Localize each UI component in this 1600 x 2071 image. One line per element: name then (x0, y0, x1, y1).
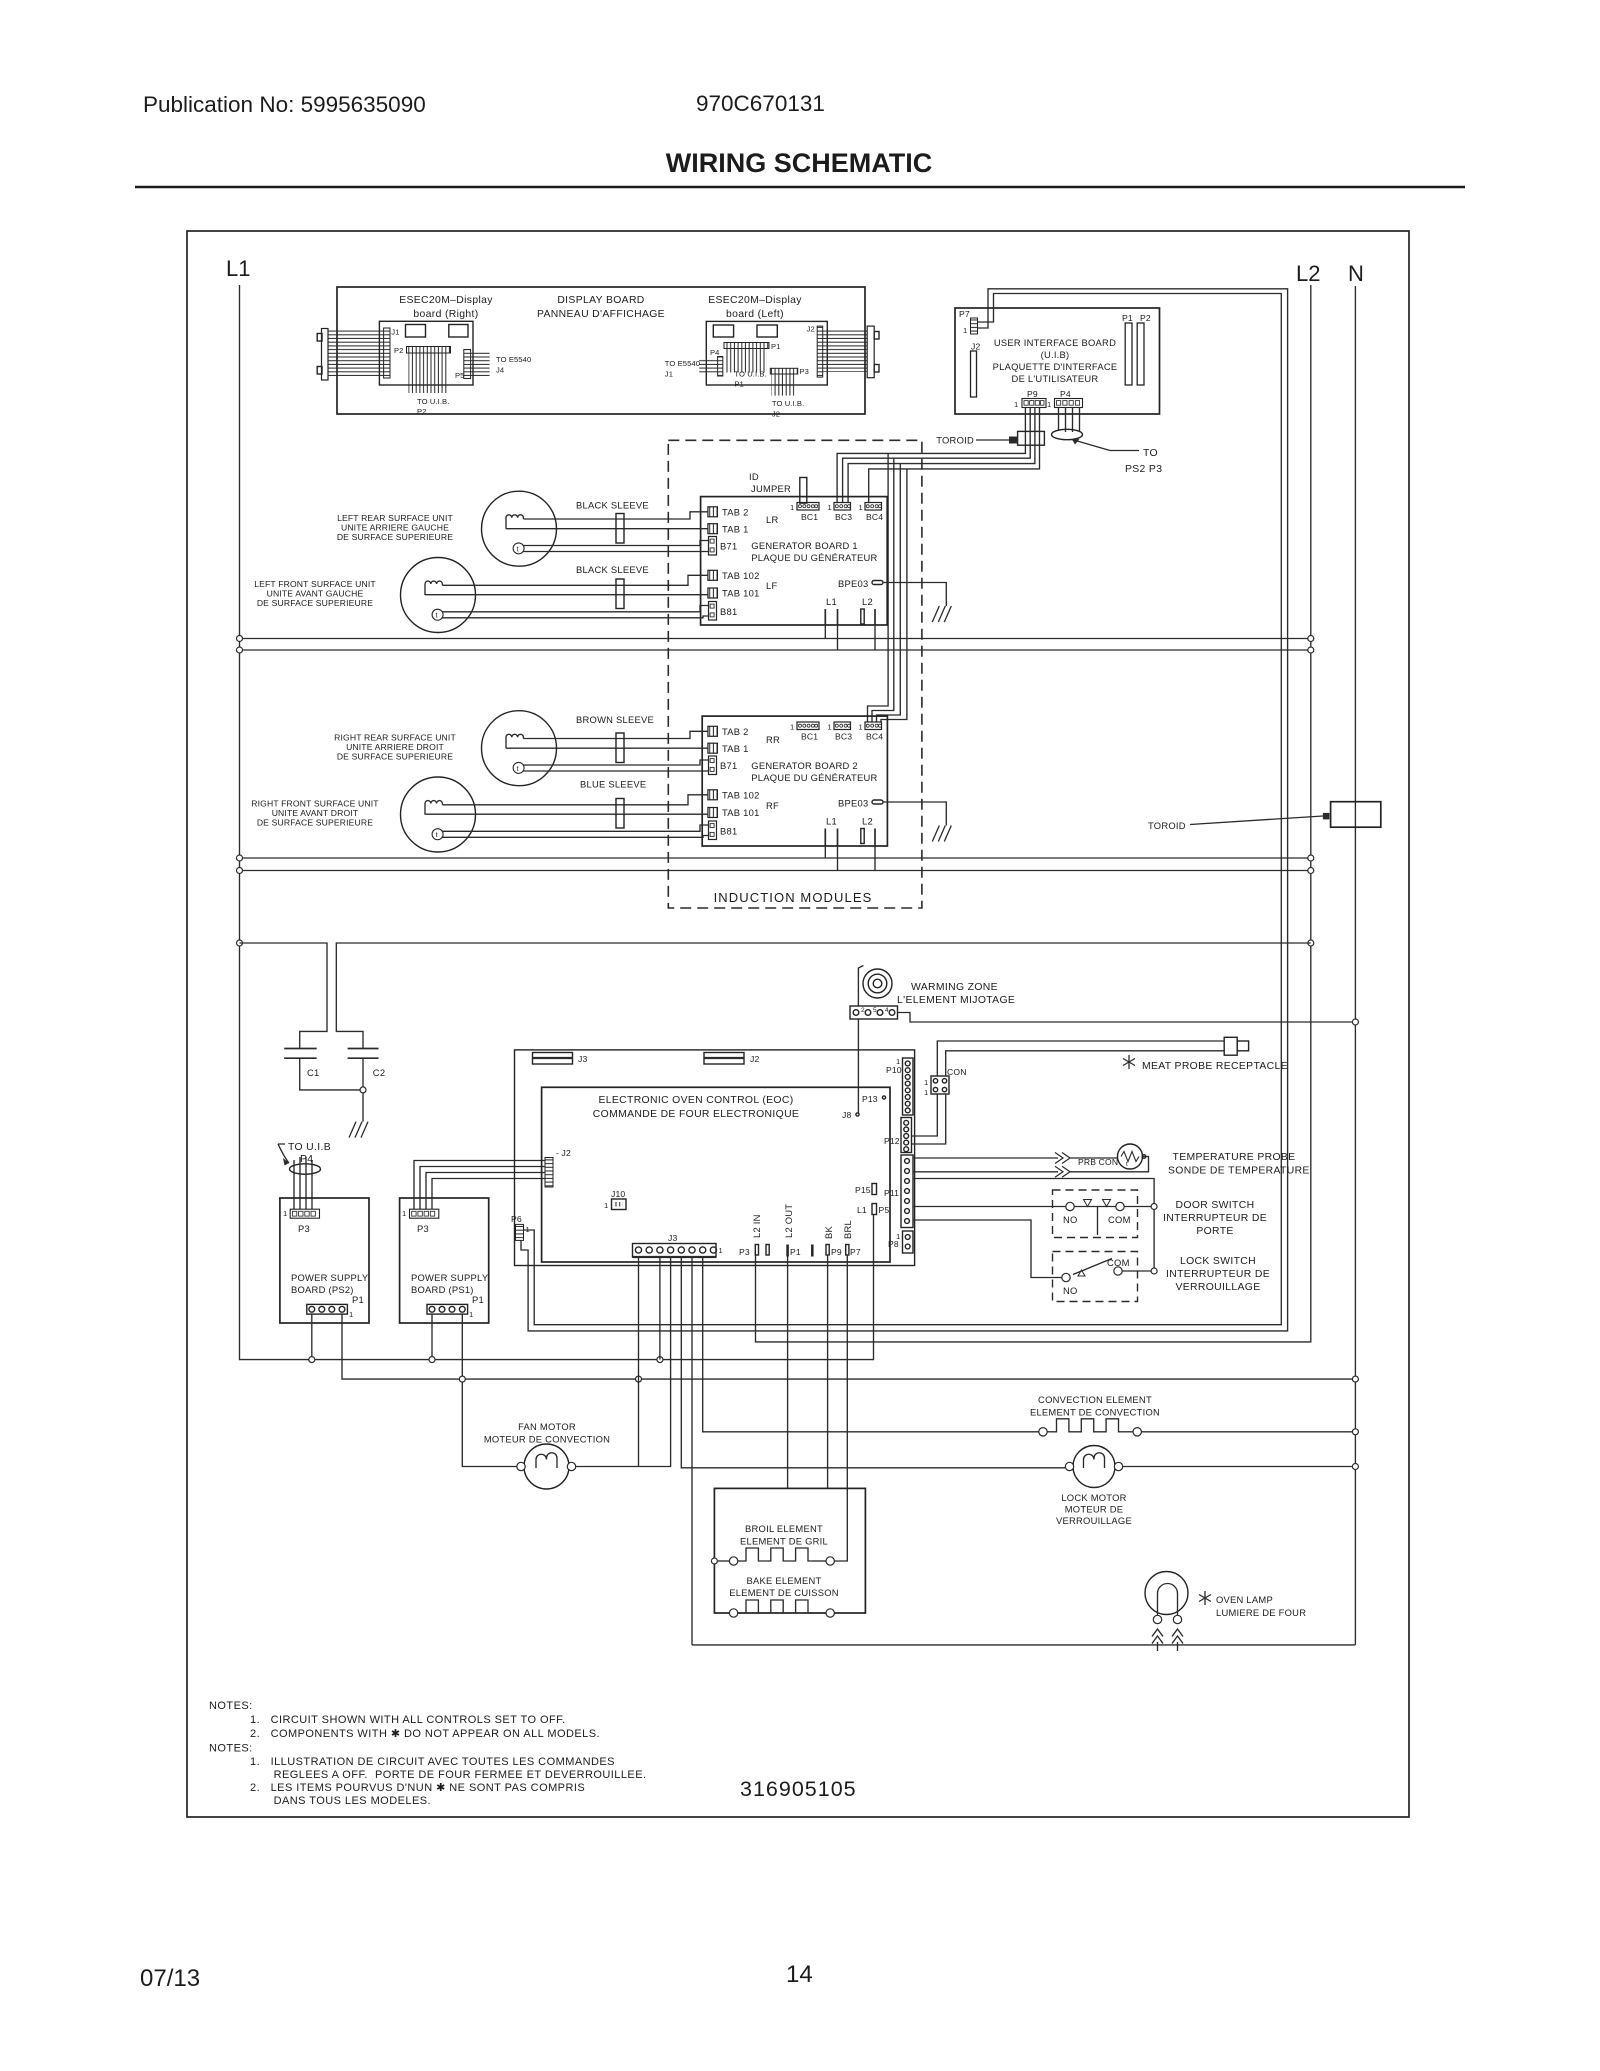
svg-text:L1: L1 (857, 1205, 867, 1215)
svg-text:P1: P1 (790, 1247, 801, 1257)
wires P9 through toroid to BC3/BC4 (837, 408, 1025, 504)
svg-text:B81: B81 (720, 606, 737, 617)
wire PS2 P1 pin4 to bus B (342, 1314, 1355, 1379)
svg-text:DOOR SWITCH: DOOR SWITCH (1176, 1200, 1255, 1211)
svg-text:1: 1 (469, 1310, 473, 1319)
temperature probe resistor (1070, 1157, 1118, 1159)
svg-text:C1: C1 (307, 1067, 319, 1078)
svg-text:B71: B71 (720, 541, 737, 552)
svg-text:5: 5 (873, 1007, 877, 1014)
svg-text:P3: P3 (739, 1247, 750, 1257)
ribbon down from P1 (726, 349, 767, 373)
svg-text:ELECTRONIC OVEN CONTROL (EOC): ELECTRONIC OVEN CONTROL (EOC) (598, 1095, 793, 1106)
svg-text:P1: P1 (1122, 313, 1133, 323)
svg-text:TAB 1: TAB 1 (722, 524, 749, 535)
svg-text:1: 1 (896, 1232, 900, 1241)
chevrons PRB CON (1055, 1153, 1070, 1164)
connector P3 (PS1) (410, 1209, 439, 1218)
wires LF to TAB102/TAB101 (442, 575, 708, 585)
right display PCB (379, 321, 473, 385)
ribbon right from P5 (471, 352, 490, 378)
svg-text:P2: P2 (417, 407, 427, 416)
svg-text:NO: NO (1063, 1285, 1078, 1296)
right front coil (425, 801, 442, 815)
svg-text:P2: P2 (1140, 313, 1151, 323)
svg-text:1: 1 (828, 503, 832, 512)
svg-text:DANS TOUS LES MODELES.: DANS TOUS LES MODELES. (274, 1795, 431, 1807)
svg-text:4: 4 (885, 1007, 889, 1014)
svg-text:P7: P7 (850, 1247, 861, 1257)
junction nodes on bus B (459, 1376, 465, 1382)
svg-text:RIGHT REAR SURFACE UNIT: RIGHT REAR SURFACE UNIT (334, 733, 456, 743)
svg-text:BROIL ELEMENT: BROIL ELEMENT (745, 1523, 823, 1534)
wire J3 pin3 to L1 bus (659, 1257, 661, 1360)
svg-text:POWER SUPPLY: POWER SUPPLY (411, 1272, 489, 1283)
ribbon right from J2 (823, 330, 868, 372)
svg-text:P3: P3 (298, 1223, 310, 1234)
svg-text:BC3: BC3 (835, 512, 852, 522)
svg-text:P1: P1 (472, 1294, 484, 1305)
svg-text:L1: L1 (826, 816, 837, 827)
wire warming block to N (898, 1013, 1356, 1023)
asterisk (oven lamp) (1199, 1591, 1211, 1605)
svg-text:LOCK MOTOR: LOCK MOTOR (1061, 1492, 1126, 1503)
svg-text:NOTES:: NOTES: (209, 1743, 253, 1755)
connector TAB 101 (board1) (708, 588, 718, 598)
wire door COM to junction (1124, 1206, 1154, 1208)
svg-text:CONVECTION ELEMENT: CONVECTION ELEMENT (1038, 1394, 1152, 1405)
svg-text:MEAT PROBE RECEPTACLE: MEAT PROBE RECEPTACLE (1142, 1061, 1288, 1072)
svg-text:WIRING SCHEMATIC: WIRING SCHEMATIC (666, 148, 932, 178)
user interface board box (955, 308, 1160, 414)
svg-text:L1: L1 (226, 256, 250, 281)
svg-text:P5: P5 (879, 1205, 890, 1215)
capacitor C2 (348, 1048, 379, 1050)
svg-text:DISPLAY BOARD: DISPLAY BOARD (557, 295, 644, 306)
svg-text:BK: BK (823, 1225, 834, 1239)
net L1 wire (240, 285, 874, 1360)
svg-text:BOARD (PS1): BOARD (PS1) (411, 1284, 474, 1295)
generator board 2 (702, 716, 887, 846)
wire J3 pin4 to fan motor right (576, 1257, 671, 1467)
wire J3 pin7 to convection element (703, 1257, 1039, 1432)
svg-text:TAB 101: TAB 101 (722, 807, 760, 818)
connector J3 (top) (533, 1053, 573, 1065)
svg-text:JUMPER: JUMPER (751, 483, 791, 494)
left front coil (425, 581, 442, 595)
svg-text:TOROID: TOROID (1148, 820, 1186, 831)
wires RF to TAB102/TAB101 (442, 795, 708, 805)
lock switch dashed box (1053, 1252, 1138, 1302)
svg-text:1: 1 (349, 1310, 353, 1319)
svg-text:PLAQUE DU GÉNÉRATEUR: PLAQUE DU GÉNÉRATEUR (751, 552, 877, 563)
junction nodes on L1 bus (309, 1357, 315, 1363)
power supply board PS1 (400, 1198, 489, 1323)
right rear burner circle (482, 711, 557, 786)
power supply board PS2 (280, 1198, 369, 1323)
broil right feed (834, 1488, 847, 1561)
svg-text:DE L'UTILISATEUR: DE L'UTILISATEUR (1012, 373, 1099, 384)
sleeve (LR) (616, 514, 624, 544)
connector TAB 102 (board1) (708, 570, 718, 580)
wires LR t to B71 (523, 541, 708, 546)
connector J1 (384, 328, 390, 378)
svg-text:1: 1 (790, 723, 794, 732)
svg-text:INTERRUPTEUR DE: INTERRUPTEUR DE (1166, 1269, 1270, 1280)
svg-text:1: 1 (790, 503, 794, 512)
wire pair P7 to P6 wrap-around (524, 294, 1282, 1325)
svg-text:DE SURFACE SUPERIEURE: DE SURFACE SUPERIEURE (337, 752, 453, 762)
connector P3 (770, 368, 797, 374)
svg-text:INTERRUPTEUR DE: INTERRUPTEUR DE (1163, 1213, 1267, 1224)
svg-text:1: 1 (526, 1225, 530, 1234)
svg-text:1: 1 (283, 1209, 287, 1218)
svg-text:Publication No: 5995635090: Publication No: 5995635090 (143, 92, 426, 117)
bottom run wire (692, 1644, 1355, 1646)
left rear coil (506, 515, 523, 529)
svg-text:TAB 102: TAB 102 (722, 790, 760, 801)
svg-text:N: N (1348, 261, 1364, 286)
switch common wire to P11 (913, 1179, 1154, 1272)
svg-text:J2: J2 (807, 325, 815, 334)
svg-text:P5: P5 (455, 371, 465, 380)
svg-text:TAB 2: TAB 2 (722, 726, 749, 737)
svg-text:MOTEUR DE: MOTEUR DE (1065, 1504, 1124, 1515)
connector P5 (464, 350, 471, 379)
wire J3 pin6 to bottom run (691, 1257, 693, 1645)
svg-text:LR: LR (766, 514, 778, 525)
riser L2 OUT / P1 to broil box (787, 1257, 789, 1489)
svg-text:ELEMENT DE GRIL: ELEMENT DE GRIL (740, 1536, 828, 1547)
svg-text:1: 1 (924, 1078, 928, 1087)
svg-text:BC1: BC1 (801, 732, 818, 742)
door switch dashed box (1053, 1190, 1138, 1238)
svg-text:VERROUILLAGE: VERROUILLAGE (1175, 1282, 1260, 1293)
svg-text:UNITE ARRIERE DROIT: UNITE ARRIERE DROIT (346, 742, 444, 752)
svg-text:BC3: BC3 (835, 732, 852, 742)
right front burner circle (401, 777, 476, 852)
sleeve (RF) (616, 799, 624, 829)
svg-text:C2: C2 (373, 1067, 385, 1078)
svg-text:UNITE AVANT GAUCHE: UNITE AVANT GAUCHE (267, 589, 364, 599)
svg-text:07/13: 07/13 (140, 1965, 200, 1992)
svg-text:LOCK SWITCH: LOCK SWITCH (1180, 1256, 1256, 1267)
ribbon cable to right display board (328, 330, 384, 378)
junction node warming on N (1352, 1019, 1358, 1025)
svg-text:RF: RF (766, 800, 779, 811)
svg-text:P1: P1 (771, 342, 781, 351)
off-page ellipse (to PS2 P3) (1052, 429, 1083, 439)
svg-text:1. ILLUSTRATION DE CIRCUIT A: 1. ILLUSTRATION DE CIRCUIT AVEC TOUTES L… (250, 1756, 615, 1768)
lock switch contacts (1062, 1273, 1070, 1281)
svg-text:J4: J4 (496, 366, 504, 375)
left rear t sensor (513, 543, 524, 554)
svg-text:1: 1 (828, 723, 832, 732)
svg-text:L2: L2 (862, 596, 873, 607)
svg-text:J3: J3 (578, 1054, 587, 1064)
bus 1 (L1 to L2) (240, 638, 1311, 640)
svg-text:L2 OUT: L2 OUT (783, 1204, 794, 1238)
svg-text:POWER SUPPLY: POWER SUPPLY (291, 1272, 369, 1283)
svg-text:1: 1 (1014, 400, 1018, 409)
riser P7 / BRL to broil element (846, 1255, 848, 1488)
broil element (711, 1558, 717, 1564)
junction nodes on L1 (237, 636, 243, 642)
svg-text:DE SURFACE SUPERIEURE: DE SURFACE SUPERIEURE (257, 818, 373, 828)
svg-text:REGLEES A OFF. PORTE DE FOUR: REGLEES A OFF. PORTE DE FOUR FERMEE ET D… (274, 1769, 647, 1781)
svg-text:P7: P7 (959, 309, 970, 319)
outer border (187, 231, 1409, 1817)
svg-text:TO: TO (1143, 448, 1158, 459)
bus 2 (240, 649, 1311, 651)
svg-text:SONDE DE TEMPERATURE: SONDE DE TEMPERATURE (1168, 1166, 1310, 1177)
svg-text:2: 2 (861, 1007, 865, 1014)
svg-text:t: t (1126, 1161, 1128, 1168)
svg-text:TAB 1: TAB 1 (722, 743, 749, 754)
title rule (135, 186, 1465, 188)
svg-text:J2: J2 (750, 1054, 759, 1064)
wire J3 pin1 down to fan/lock run (638, 1257, 640, 1467)
svg-text:RR: RR (766, 734, 780, 745)
connector TAB 1 (board1) (708, 524, 718, 534)
svg-text:P3: P3 (417, 1223, 429, 1234)
wires P4 to off-page ellipse (1058, 408, 1060, 432)
left front burner circle (401, 558, 476, 633)
EOC box (542, 1087, 890, 1262)
svg-text:1: 1 (859, 723, 863, 732)
svg-text:BAKE ELEMENT: BAKE ELEMENT (747, 1575, 822, 1586)
meat probe receptacle (1224, 1037, 1237, 1055)
svg-text:ESEC20M–Display: ESEC20M–Display (399, 295, 493, 306)
svg-text:TO U.I.B.: TO U.I.B. (417, 397, 449, 406)
svg-text:TO U.I.B.: TO U.I.B. (772, 399, 804, 408)
svg-text:1: 1 (402, 1209, 406, 1218)
junction nodes on L2 (1308, 636, 1314, 642)
svg-text:BOARD (PS2): BOARD (PS2) (291, 1284, 354, 1295)
svg-text:BLUE SLEEVE: BLUE SLEEVE (580, 779, 646, 790)
svg-text:P10: P10 (886, 1065, 902, 1075)
svg-text:board (Right): board (Right) (413, 309, 478, 320)
wire PS2 P1 pin1 to L1 bus (311, 1314, 313, 1360)
broil/bake element box (714, 1488, 865, 1613)
svg-text:1: 1 (963, 326, 967, 335)
svg-text:DE SURFACE SUPERIEURE: DE SURFACE SUPERIEURE (257, 598, 373, 608)
svg-text:TO E5540: TO E5540 (496, 355, 531, 364)
svg-text:P11: P11 (884, 1188, 899, 1198)
svg-text:2. COMPONENTS WITH ✱ DO NOT: 2. COMPONENTS WITH ✱ DO NOT APPEAR ON AL… (250, 1728, 600, 1740)
svg-text:P13: P13 (862, 1094, 878, 1104)
connector B81 (board1) (709, 602, 717, 621)
svg-text:ID: ID (749, 471, 759, 482)
wire J3 pin5 to lock motor left (681, 1257, 1065, 1468)
warming zone spiral (863, 969, 892, 998)
svg-text:BPE03: BPE03 (838, 798, 868, 809)
svg-text:J1: J1 (665, 370, 673, 379)
bus 5 with capacitor taps (240, 943, 328, 1049)
wires RR t to B71 (523, 760, 708, 765)
ribbon left from P4 (699, 358, 717, 373)
svg-text:BC4: BC4 (866, 732, 883, 742)
wires PS2 P3 to ellipse (293, 1160, 295, 1209)
svg-text:INDUCTION MODULES: INDUCTION MODULES (714, 890, 873, 905)
svg-text:BRL: BRL (842, 1220, 853, 1239)
svg-text:LEFT FRONT SURFACE UNIT: LEFT FRONT SURFACE UNIT (254, 579, 376, 589)
temperature probe return wire (1070, 1157, 1149, 1172)
wire P11 to door switch NO (913, 1206, 1066, 1208)
convection element (1039, 1428, 1047, 1436)
connector B71 (board2) (709, 756, 717, 775)
svg-text:board (Left): board (Left) (726, 309, 784, 320)
BPE03 wire to ground (board2) (883, 802, 946, 826)
svg-text:P6: P6 (511, 1214, 522, 1224)
connector J2 (top) (704, 1053, 744, 1065)
connector TAB 2 (board1) (708, 507, 718, 517)
ground (board1 BPE03) (932, 606, 951, 622)
svg-text:ESEC20M–Display: ESEC20M–Display (708, 295, 802, 306)
svg-text:L1: L1 (826, 596, 837, 607)
right rear t sensor (513, 762, 524, 773)
svg-text:P4: P4 (710, 348, 720, 357)
svg-text:P1: P1 (352, 1294, 364, 1305)
svg-text:LUMIERE DE FOUR: LUMIERE DE FOUR (1216, 1607, 1306, 1618)
svg-text:(U.I.B): (U.I.B) (1041, 349, 1070, 360)
svg-text:BLACK SLEEVE: BLACK SLEEVE (576, 500, 649, 511)
svg-text:J2: J2 (772, 410, 780, 419)
svg-text:MOTEUR DE CONVECTION: MOTEUR DE CONVECTION (484, 1434, 610, 1445)
induction modules dashed box (668, 440, 922, 908)
connector B81 (board2) (709, 821, 717, 840)
svg-text:CON: CON (947, 1067, 967, 1077)
svg-text:L2: L2 (862, 816, 873, 827)
svg-text:B81: B81 (720, 826, 737, 837)
lock motor (1073, 1446, 1115, 1488)
wires P11 to temperature probe (913, 1157, 1058, 1159)
svg-text:BROWN SLEEVE: BROWN SLEEVE (576, 714, 654, 725)
connector P3 (PS2) (290, 1209, 319, 1218)
svg-text:TOROID: TOROID (936, 435, 974, 446)
svg-text:NOTES:: NOTES: (209, 1700, 253, 1712)
svg-text:VERROUILLAGE: VERROUILLAGE (1056, 1515, 1132, 1526)
svg-text:FAN MOTOR: FAN MOTOR (518, 1421, 576, 1432)
svg-text:1: 1 (896, 1057, 900, 1066)
svg-text:PORTE: PORTE (1196, 1226, 1233, 1237)
svg-text:J2: J2 (971, 342, 980, 352)
svg-text:TAB 102: TAB 102 (722, 570, 760, 581)
wires RR to TAB2/TAB1 (523, 731, 708, 738)
svg-text:OVEN LAMP: OVEN LAMP (1216, 1594, 1273, 1605)
connector B71 (board1) (709, 537, 717, 556)
svg-text:P9: P9 (831, 1247, 842, 1257)
svg-text:ELEMENT DE CONVECTION: ELEMENT DE CONVECTION (1030, 1407, 1160, 1418)
connector TAB 101 (board2) (708, 808, 718, 818)
svg-text:PLAQUETTE D'INTERFACE: PLAQUETTE D'INTERFACE (993, 361, 1118, 372)
wires LR to TAB2/TAB1 (523, 512, 708, 519)
svg-text:BC1: BC1 (801, 512, 818, 522)
svg-text:BLACK SLEEVE: BLACK SLEEVE (576, 564, 649, 575)
connector TAB 2 (board2) (708, 726, 718, 736)
svg-text:- J2: - J2 (556, 1148, 571, 1158)
svg-text:GENERATOR BOARD 2: GENERATOR BOARD 2 (751, 760, 858, 771)
sleeve (RR) (616, 733, 624, 763)
ribbon down from P3 (772, 374, 797, 396)
svg-text:1: 1 (719, 1246, 723, 1255)
label TO PS2 P3 with leader arrow (1110, 450, 1139, 452)
junction nodes switch commons (1151, 1204, 1157, 1210)
capacitor C1 (284, 1048, 317, 1050)
svg-text:J1: J1 (391, 328, 399, 337)
svg-text:J10: J10 (611, 1189, 625, 1199)
wires P12 to CON (912, 1094, 938, 1136)
connector P2 (407, 347, 451, 354)
left display PCB (706, 321, 827, 385)
ground (board2 BPE03) (932, 826, 951, 842)
svg-text:PLAQUE DU GÉNÉRATEUR: PLAQUE DU GÉNÉRATEUR (751, 772, 877, 783)
svg-text:1: 1 (859, 503, 863, 512)
capacitor return wires (300, 1058, 363, 1121)
display board box (337, 287, 865, 414)
svg-text:WARMING ZONE: WARMING ZONE (911, 982, 998, 993)
BPE03 wire to ground (883, 583, 946, 607)
wires LF t to B81 (442, 606, 708, 612)
svg-text:LF: LF (766, 580, 777, 591)
svg-text:PS2 P3: PS2 P3 (1125, 464, 1162, 475)
left front t sensor (432, 609, 443, 620)
svg-text:J8: J8 (842, 1110, 851, 1120)
long verticals to generator board 2 BC4 (868, 453, 889, 722)
wire lock motor to N (1123, 1466, 1356, 1468)
junction node capacitors (360, 1087, 366, 1093)
riser P9 / BK to broil box (827, 1255, 829, 1488)
bus 3 (240, 857, 1311, 859)
svg-text:TO U.I.B.: TO U.I.B. (734, 370, 766, 379)
asterisk (meat probe) (1123, 1055, 1135, 1069)
connector TAB 1 (board2) (708, 743, 718, 753)
svg-text:1. CIRCUIT SHOWN WITH ALL CO: 1. CIRCUIT SHOWN WITH ALL CONTROLS SET T… (250, 1714, 566, 1726)
svg-text:PANNEAU D'AFFICHAGE: PANNEAU D'AFFICHAGE (537, 309, 665, 320)
wire lock COM to junction (1122, 1270, 1154, 1272)
svg-text:J3: J3 (668, 1233, 677, 1243)
connector J2 (817, 326, 823, 377)
oven lamp (1145, 1572, 1188, 1615)
svg-text:TAB 101: TAB 101 (722, 588, 760, 599)
bus 4 (240, 870, 1311, 872)
oven lamp chevrons (1152, 1629, 1163, 1651)
svg-text:USER INTERFACE BOARD: USER INTERFACE BOARD (994, 337, 1116, 348)
generator board 1 (701, 497, 888, 625)
warming zone connector block (850, 1006, 898, 1019)
svg-text:316905105: 316905105 (740, 1777, 857, 1801)
svg-text:COM: COM (1108, 1214, 1131, 1225)
svg-text:NO: NO (1063, 1214, 1078, 1225)
svg-text:P12: P12 (884, 1136, 900, 1146)
bake element (729, 1609, 737, 1617)
wire PS1 P1 pin1 to L1 bus (431, 1314, 433, 1360)
svg-text:TAB 2: TAB 2 (722, 507, 749, 518)
ground (capacitors) (349, 1122, 368, 1138)
svg-text:P15: P15 (855, 1185, 871, 1195)
EOC enclosure box (515, 1050, 915, 1266)
right rear coil (506, 734, 523, 748)
svg-text:ELEMENT DE CUISSON: ELEMENT DE CUISSON (729, 1587, 839, 1598)
wires PS1 P3 to EOC J2 (414, 1161, 545, 1210)
svg-text:LEFT REAR SURFACE UNIT: LEFT REAR SURFACE UNIT (337, 513, 453, 523)
svg-text:COM: COM (1107, 1257, 1130, 1268)
svg-text:P4: P4 (1060, 389, 1071, 399)
right front t sensor (432, 829, 443, 840)
connector TAB 102 (board2) (708, 790, 718, 800)
connector P4 (718, 357, 723, 377)
svg-text:1: 1 (924, 1088, 928, 1097)
